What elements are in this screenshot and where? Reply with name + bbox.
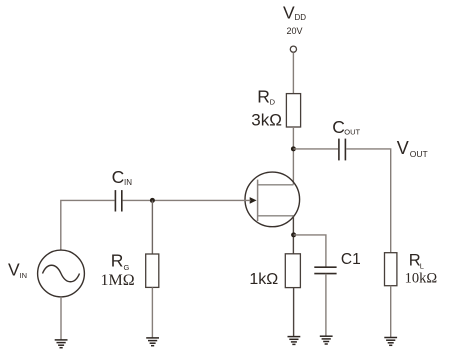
svg-text:20V: 20V [287,26,303,36]
capacitor COUT [338,139,340,161]
wire RD to drain node and into transistor [292,127,294,185]
svg-text:L: L [420,261,424,270]
transistor Q1 drain lead [258,184,294,186]
svg-text:IN: IN [124,178,132,187]
wire drain node to COUT [293,148,338,150]
capacitor CIN [114,190,116,211]
svg-text:C1: C1 [341,251,361,268]
capacitor C1 [314,266,336,268]
svg-text:G: G [124,263,130,272]
ground G1 [55,340,68,348]
source VIN sine [43,265,80,282]
transistor Q1 gate bar [257,180,259,221]
wire RL to ground [390,286,392,338]
svg-text:1kΩ: 1kΩ [249,271,278,288]
wire COUT to RL corner [346,149,391,253]
wire RS to ground [293,288,295,337]
svg-text:OUT: OUT [344,128,360,137]
svg-text:D: D [270,97,276,106]
svg-text:V: V [8,260,20,280]
svg-text:3kΩ: 3kΩ [251,110,282,129]
svg-text:C: C [332,117,345,137]
transistor Q1 gate arrow [250,197,257,204]
wire RG to ground [151,287,153,338]
svg-text:C: C [112,167,125,187]
wire VDD terminal to RD [292,52,294,93]
node drain junction [291,146,296,151]
node source junction [291,232,296,237]
svg-text:IN: IN [20,271,28,280]
svg-text:1MΩ: 1MΩ [101,272,135,289]
svg-text:V: V [397,138,409,158]
wire gate node to RG [151,200,153,254]
svg-text:OUT: OUT [410,149,428,159]
terminal VDD [290,46,296,52]
ground G3 [288,337,301,345]
resistor RS 1k [285,254,300,288]
wire VIN to CIN [61,200,115,250]
svg-text:10kΩ: 10kΩ [405,271,438,287]
source VIN [38,250,85,297]
wire gate line [123,199,251,201]
ground G5 [384,338,397,346]
svg-text:DD: DD [295,13,307,22]
resistor RD [286,94,300,127]
svg-text:R: R [111,251,124,271]
wire C1 to ground [325,274,327,336]
svg-text:V: V [283,3,295,23]
wire node S to C1 [294,235,326,267]
ground G2 [146,338,159,346]
wire VIN to ground [60,297,62,340]
wire source to node S [292,216,294,254]
transistor Q1 body [245,172,300,227]
node gate junction [150,198,155,203]
ground G4 [320,336,333,344]
transistor Q1 source lead [258,215,294,217]
svg-text:R: R [257,86,270,106]
resistor RL [385,253,397,286]
resistor RG [146,254,159,287]
